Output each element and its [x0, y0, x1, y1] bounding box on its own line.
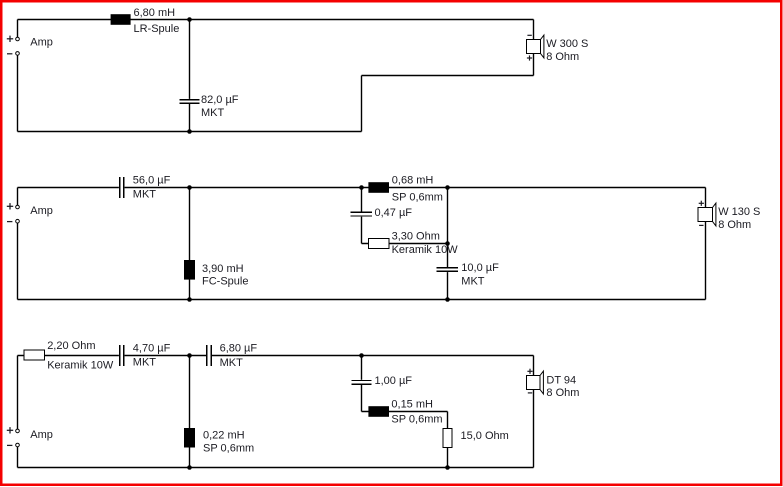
svg-text:8 Ohm: 8 Ohm	[718, 219, 751, 231]
node junction bottom rail / shunt inductor (section 3)	[187, 465, 192, 470]
wire amp - down to bottom rail (section 2)	[17, 223, 19, 300]
svg-text:LR-Spule: LR-Spule	[134, 23, 180, 35]
svg-text:MKT: MKT	[133, 357, 157, 369]
wire top rail between series caps (section 3)	[125, 355, 207, 357]
svg-text:3,90 mH: 3,90 mH	[202, 263, 244, 275]
wire top rail (section 1)	[18, 19, 534, 21]
wire RLC resistor leads (section 3)	[447, 412, 449, 468]
node junction A top rail / RC branch (section 2)	[359, 185, 364, 190]
wire shunt cap branch through 10,0 µF (section 2)	[447, 188, 449, 300]
inductor 6,80 mH LR-Spule (series, top rail)	[111, 14, 131, 25]
capacitor 6,80 µF MKT (series)	[207, 345, 211, 366]
svg-text:MKT: MKT	[461, 275, 485, 287]
wire bottom rail (section 3)	[18, 467, 534, 469]
wire RLC branch vertical through 1,00 µF (section 3)	[361, 356, 363, 412]
wire top rail to speaker plus (section 2)	[705, 188, 707, 208]
wire RC branch horizontal through 3,30 Ohm (section 2)	[362, 243, 448, 245]
svg-text:0,22 mH: 0,22 mH	[203, 430, 245, 442]
node junction bottom rail / shunt inductor (section 2)	[187, 297, 192, 302]
svg-text:Amp: Amp	[30, 429, 53, 441]
node junction top rail / RLC branch (section 3)	[359, 353, 364, 358]
node junction B top rail / cap branch (section 2)	[445, 185, 450, 190]
wire top rail right segment (section 3)	[212, 355, 534, 357]
capacitor 0,47 µF (in RC branch)	[351, 212, 373, 216]
capacitor 4,70 µF MKT (series)	[120, 345, 124, 366]
inductor 0,68 mH SP 0,6mm (series, top rail)	[368, 182, 389, 193]
amp terminal - (section 1)	[16, 52, 20, 56]
wire bottom rail (section 1)	[18, 131, 362, 133]
svg-text:W 300 S: W 300 S	[546, 38, 588, 50]
wire shunt inductor branch (section 2)	[189, 188, 191, 300]
polarity mark - at amp (section 2)	[7, 221, 12, 223]
svg-text:SP 0,6mm: SP 0,6mm	[392, 191, 443, 203]
wire bottom step to speaker minus (section 1)	[362, 54, 534, 132]
wire shunt capacitor branch (section 1)	[189, 20, 191, 132]
svg-text:6,80 mH: 6,80 mH	[134, 7, 176, 19]
polarity mark - at speaker W 300 S	[527, 34, 531, 36]
svg-text:MKT: MKT	[133, 189, 157, 201]
svg-text:FC-Spule: FC-Spule	[202, 275, 248, 287]
polarity mark - at speaker W 130 S	[699, 224, 703, 226]
amp terminal + (section 2)	[16, 205, 20, 209]
wire top rail left of series cap (section 2)	[18, 187, 119, 189]
wire amp + to top rail (section 1)	[17, 20, 19, 38]
svg-text:15,0 Ohm: 15,0 Ohm	[461, 430, 509, 442]
amp terminal - (section 2)	[16, 219, 20, 223]
wire amp - down to bottom rail (section 1)	[17, 55, 19, 131]
svg-text:2,20 Ohm: 2,20 Ohm	[47, 340, 95, 352]
svg-text:1,00 µF: 1,00 µF	[375, 375, 413, 387]
svg-text:0,47 µF: 0,47 µF	[375, 207, 413, 219]
svg-text:Amp: Amp	[30, 205, 53, 217]
speaker W 130 S (midrange symbol)	[698, 203, 716, 226]
speaker DT 94 (tweeter symbol)	[527, 371, 544, 394]
wire top rail left segment with resistor (section 3)	[18, 355, 119, 357]
polarity mark - at amp (section 3)	[7, 444, 12, 446]
wire shunt inductor branch (section 3)	[189, 356, 191, 468]
polarity mark - at speaker DT 94	[528, 392, 532, 394]
node junction top rail / shunt inductor (section 2)	[187, 185, 192, 190]
wire amp - down to bottom rail (section 3)	[17, 447, 19, 468]
resistor 15,0 Ohm (in RLC branch, vertical)	[443, 429, 452, 448]
svg-text:DT 94: DT 94	[546, 375, 576, 387]
wire RC branch vertical through 0,47 µF (section 2)	[361, 188, 363, 244]
svg-text:MKT: MKT	[220, 357, 244, 369]
node junction bottom rail / cap branch (section 2)	[445, 297, 450, 302]
polarity mark + at amp (section 1)	[7, 36, 13, 42]
svg-text:W 130 S: W 130 S	[718, 206, 760, 218]
node junction bottom rail / cap branch (section 1)	[187, 129, 192, 134]
wire amp + up to top rail (section 3)	[17, 356, 19, 430]
svg-text:SP 0,6mm: SP 0,6mm	[203, 443, 254, 455]
polarity mark - at amp (section 1)	[7, 53, 12, 55]
svg-text:Keramik 10W: Keramik 10W	[392, 244, 459, 256]
wire top rail to speaker plus (section 3)	[533, 356, 535, 376]
amp terminal + (section 3)	[16, 429, 20, 433]
wire speaker minus to bottom rail (section 3)	[533, 390, 535, 468]
node junction top rail / cap branch (section 1)	[187, 17, 192, 22]
polarity mark + at amp (section 3)	[7, 427, 13, 433]
wire speaker minus to bottom rail (section 2)	[705, 222, 707, 300]
capacitor 82,0 µF MKT (shunt)	[180, 100, 200, 104]
resistor 3,30 Ohm Keramik 10W (in RC branch)	[369, 239, 390, 249]
node junction bottom rail / RLC branch (section 3)	[445, 465, 450, 470]
svg-text:4,70 µF: 4,70 µF	[133, 343, 171, 355]
svg-text:6,80 µF: 6,80 µF	[220, 342, 258, 354]
svg-text:0,68 mH: 0,68 mH	[392, 174, 434, 186]
svg-text:82,0 µF: 82,0 µF	[201, 94, 239, 106]
polarity mark + at speaker W 130 S	[699, 201, 704, 206]
polarity mark + at speaker DT 94	[527, 369, 532, 374]
svg-text:3,30 Ohm: 3,30 Ohm	[392, 230, 440, 242]
polarity mark + at amp (section 2)	[7, 203, 13, 209]
node junction top rail / shunt inductor (section 3)	[187, 353, 192, 358]
svg-text:56,0 µF: 56,0 µF	[133, 174, 171, 186]
capacitor 56,0 µF MKT (series)	[120, 177, 124, 198]
svg-text:Amp: Amp	[30, 37, 53, 49]
wire RLC branch horizontal through 0,15 mH (section 3)	[362, 411, 448, 413]
svg-text:Keramik 10W: Keramik 10W	[47, 359, 114, 371]
speaker W 300 S (woofer symbol)	[527, 35, 544, 58]
svg-text:10,0 µF: 10,0 µF	[461, 262, 499, 274]
inductor 3,90 mH FC-Spule (shunt, vertical)	[184, 260, 195, 280]
inductor 0,15 mH SP 0,6mm (in RLC branch)	[368, 406, 389, 417]
wire bottom rail (section 2)	[18, 299, 706, 301]
amp terminal + (section 1)	[16, 37, 20, 41]
svg-text:8 Ohm: 8 Ohm	[546, 387, 579, 399]
resistor 2,20 Ohm Keramik 10W (series, top rail)	[24, 350, 45, 360]
svg-text:0,15 mH: 0,15 mH	[391, 399, 433, 411]
wire amp + to top rail (section 2)	[17, 188, 19, 206]
capacitor 10,0 µF MKT (shunt)	[437, 268, 459, 272]
amp terminal - (section 3)	[16, 443, 20, 447]
svg-text:SP 0,6mm: SP 0,6mm	[391, 413, 442, 425]
capacitor 1,00 µF (in RLC branch)	[352, 381, 372, 385]
polarity mark + at speaker W 300 S	[527, 55, 532, 60]
wire top rail right of series cap (section 2)	[125, 187, 706, 189]
inductor 0,22 mH SP 0,6mm (shunt, vertical)	[184, 428, 195, 448]
svg-text:MKT: MKT	[201, 107, 225, 119]
wire top rail to speaker plus (section 1)	[533, 20, 535, 40]
svg-text:8 Ohm: 8 Ohm	[546, 51, 579, 63]
node junction RC branch meets cap branch (section 2)	[445, 241, 450, 246]
